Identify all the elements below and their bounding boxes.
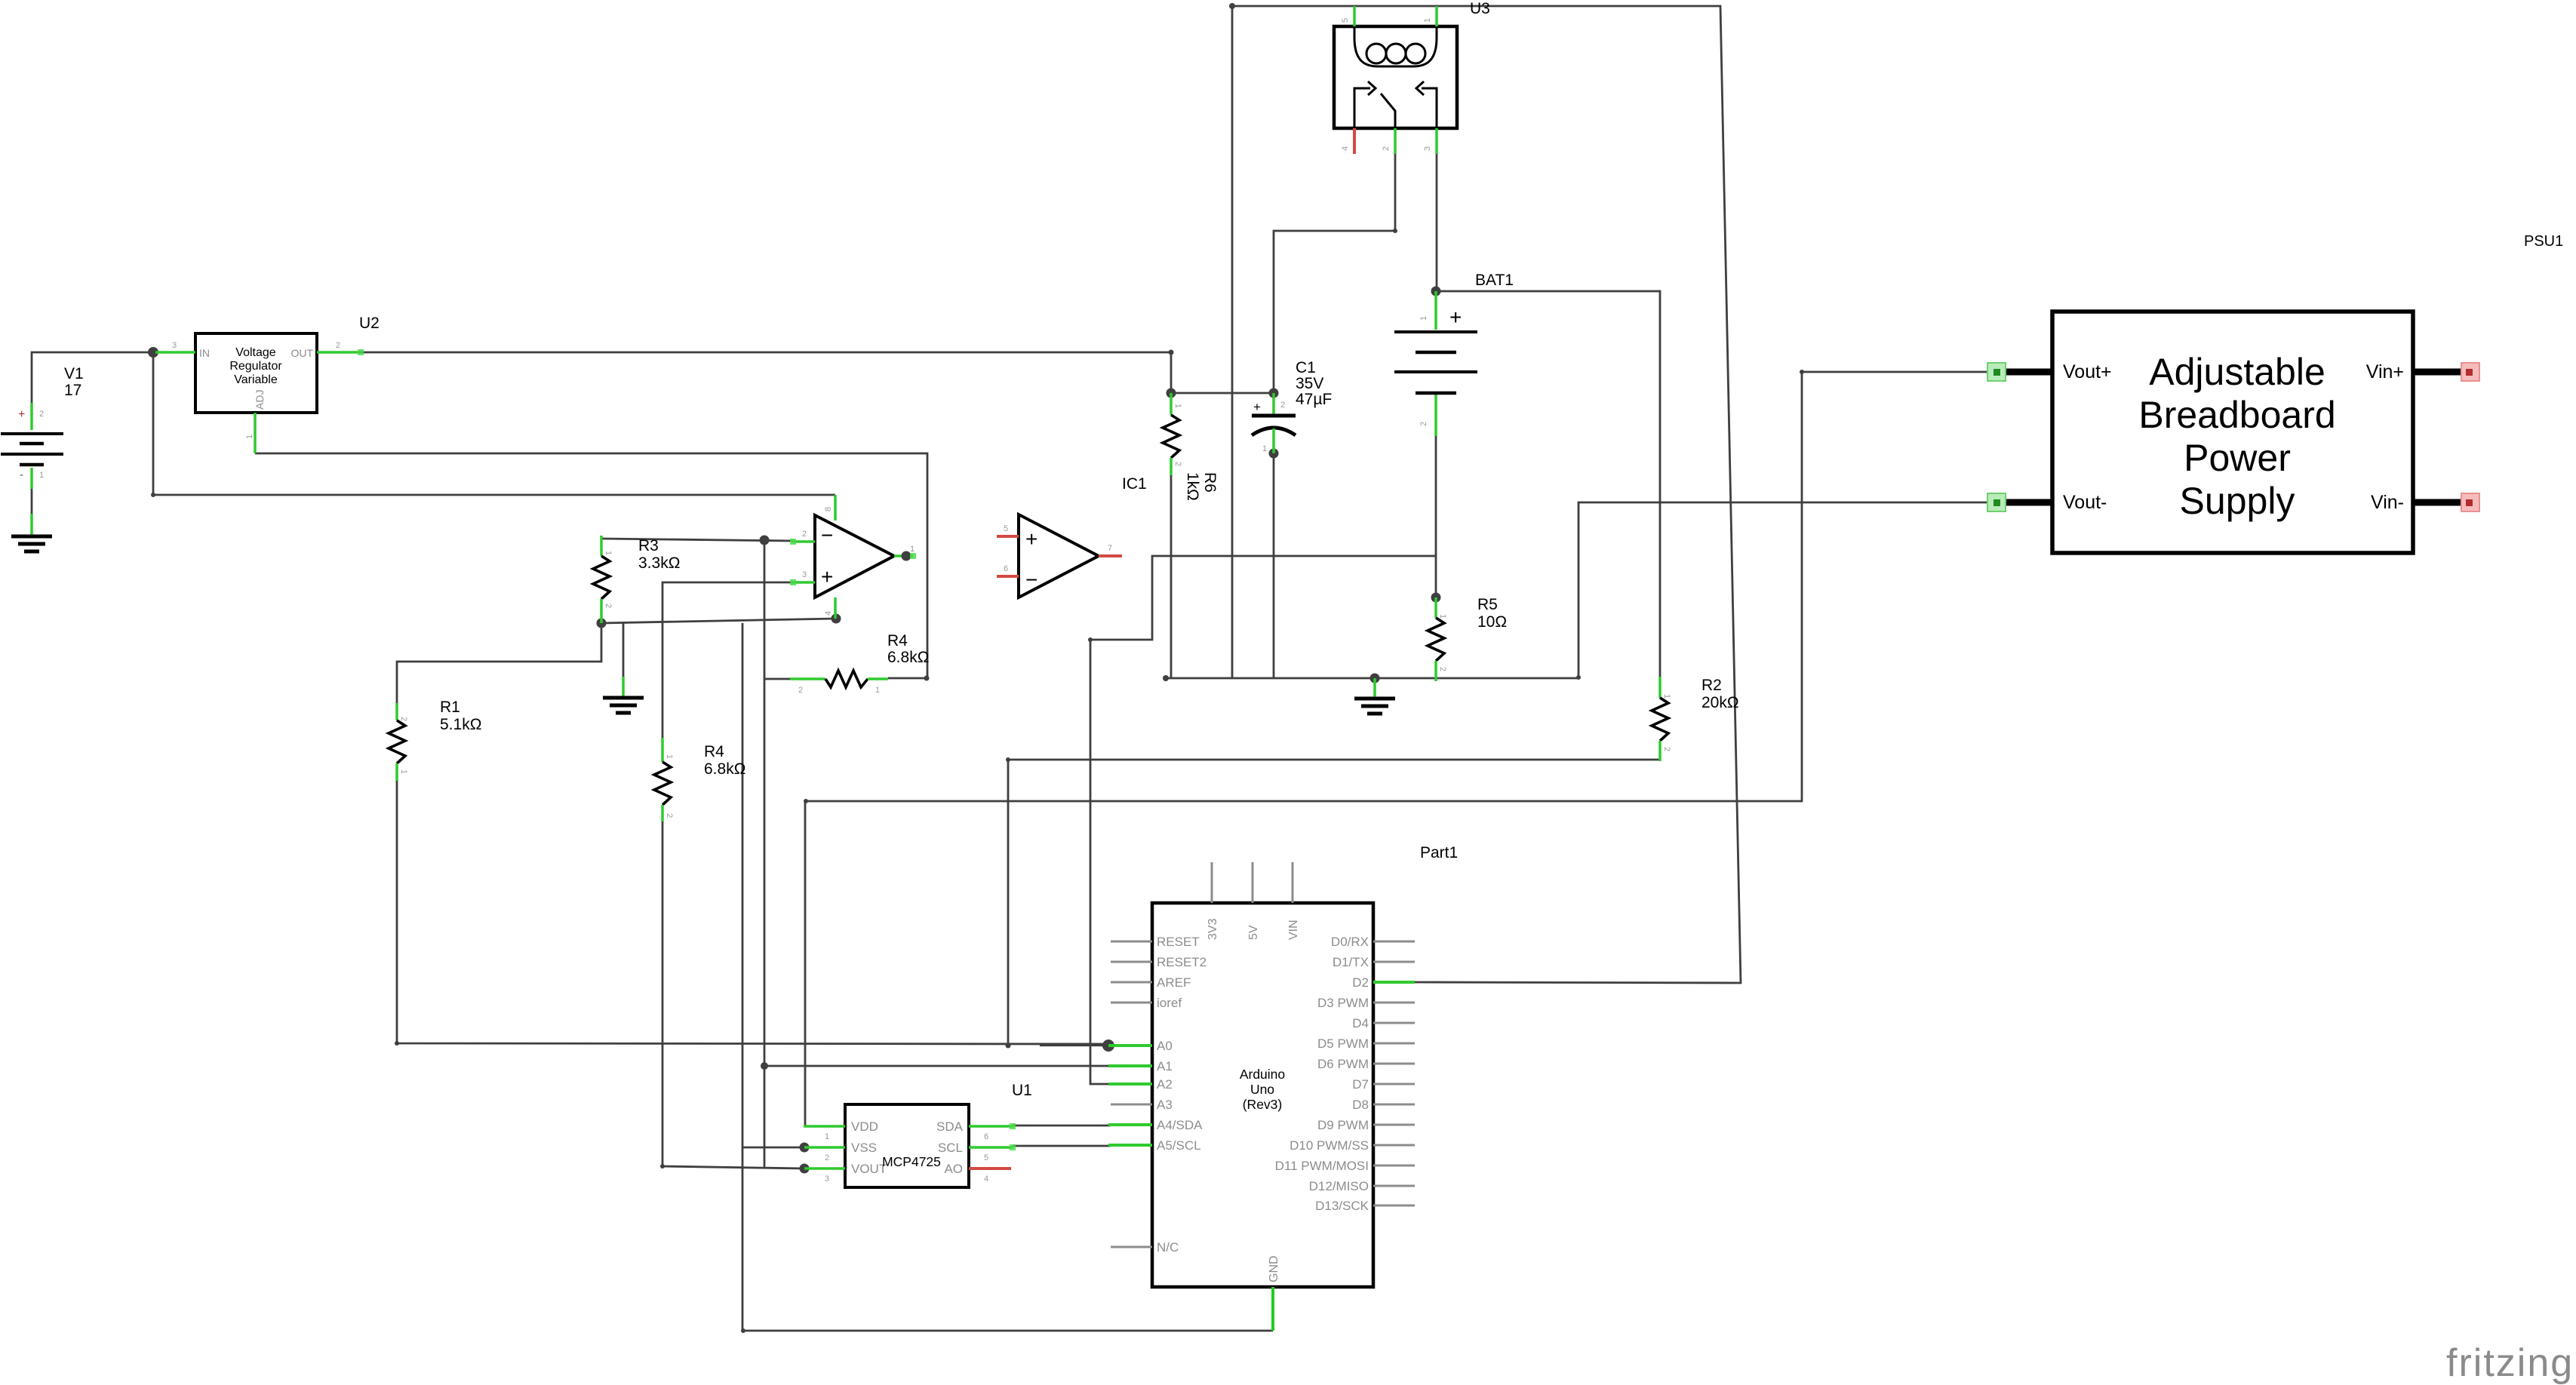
wire: A0 riser to R2 bottom [1008,760,1660,1046]
PSU Vin+ pin square (unconnected) [2461,363,2479,381]
svg-text:2: 2 [825,1153,829,1162]
svg-text:20kΩ: 20kΩ [1701,694,1739,711]
svg-text:Breadboard: Breadboard [2138,394,2335,436]
Arduino GND pin [1271,1287,1274,1331]
svg-text:V1: V1 [64,365,84,382]
svg-text:1: 1 [1423,18,1432,23]
svg-text:1: 1 [1438,614,1447,619]
svg-text:Vin-: Vin- [2371,492,2404,513]
node: C1 negative junction [1269,449,1279,459]
svg-text:2: 2 [1438,667,1447,671]
wire: R6 bottom to bus [1170,475,1173,679]
svg-text:SDA: SDA [936,1119,964,1134]
node: R5 top junction [1431,593,1441,603]
relay U3 [1334,0,1490,154]
wire: R3 bottom to R1 top [397,623,601,703]
svg-text:3: 3 [172,341,177,350]
svg-text:17: 17 [64,382,81,399]
svg-text:4: 4 [984,1175,988,1184]
svg-text:Vout+: Vout+ [2063,361,2112,382]
svg-text:2: 2 [798,686,803,695]
wire: BAT1 - to R5 [1435,436,1437,597]
svg-text:Supply: Supply [2180,480,2295,522]
svg-text:VIN: VIN [1287,920,1300,940]
node: V1+/IN junction [148,347,158,358]
PSU Vout- pin square [1987,493,2006,511]
ground (left rail) [622,677,625,698]
svg-text:Vin+: Vin+ [2366,361,2404,382]
svg-text:1: 1 [875,686,880,695]
svg-text:SCL: SCL [938,1141,963,1155]
voltage regulator U2 [155,315,380,453]
wire: V1 negative to ground [31,489,33,514]
svg-text:1: 1 [604,551,613,555]
svg-text:R3: R3 [638,537,659,554]
svg-text:-: - [20,468,23,481]
node: VOUT junction [800,1164,810,1174]
svg-text:3: 3 [1423,146,1432,151]
wire: MCP VOUT to vertical R4 bottom [662,821,804,1168]
svg-text:2: 2 [399,717,408,721]
svg-text:D6 PWM: D6 PWM [1317,1057,1369,1071]
svg-text:RESET: RESET [1157,935,1200,949]
svg-text:+: + [1449,306,1462,329]
svg-text:1: 1 [910,545,915,554]
svg-text:−: − [1025,568,1037,591]
svg-text:R1: R1 [440,699,460,716]
op-amp (first half, with feedback) [793,495,915,619]
svg-text:3: 3 [825,1175,829,1184]
svg-text:1: 1 [39,471,44,480]
svg-text:4: 4 [1341,146,1350,151]
resistor R3 3.3k [593,536,680,623]
Arduino center label [1240,1067,1285,1112]
svg-text:3: 3 [802,570,807,579]
svg-text:R4: R4 [887,632,908,650]
svg-text:2: 2 [604,603,613,608]
svg-text:2: 2 [1280,401,1285,410]
node: C1 positive junction [1269,388,1279,398]
svg-text:R2: R2 [1701,677,1722,694]
svg-text:Variable: Variable [234,373,278,386]
resistor R4 6.8k horizontal [790,632,929,695]
wire: U2 ADJ rail to op-amp output riser and R4 right [255,453,927,678]
svg-text:1: 1 [245,435,254,439]
svg-text:R5: R5 [1477,596,1498,613]
PSU Vout+ pin square [1987,363,2006,381]
node: inverting input junction [760,536,770,545]
battery V1 [1,365,84,536]
wire: R1 bottom to Arduino A0 [397,781,1108,1044]
svg-text:5.1kΩ: 5.1kΩ [440,716,481,733]
svg-text:R4: R4 [704,743,724,760]
svg-text:MCP4725: MCP4725 [882,1154,941,1169]
wire: BAT1 + to R2 top [1436,291,1660,677]
svg-text:+: + [1253,400,1261,414]
svg-text:+: + [821,565,833,588]
op-amp IC1 (unused half) [997,475,1147,597]
svg-text:IC1: IC1 [1122,475,1147,493]
svg-text:D13/SCK: D13/SCK [1315,1199,1369,1213]
svg-text:Part1: Part1 [1420,844,1458,861]
svg-text:Vout-: Vout- [2063,492,2107,513]
svg-text:U2: U2 [359,315,380,332]
svg-text:U3: U3 [1470,0,1490,17]
wire: Arduino A2 to BAT1-/R5 node [1090,556,1436,1084]
svg-text:1: 1 [1173,404,1182,408]
svg-text:3.3kΩ: 3.3kΩ [638,554,680,572]
resistor R4 6.8k vertical [654,738,745,821]
svg-text:6.8kΩ: 6.8kΩ [704,760,745,778]
svg-text:D9 PWM: D9 PWM [1317,1118,1369,1132]
MCP4725 U1 [804,1082,1032,1187]
resistor R6 1k [1163,393,1219,501]
svg-text:fritzing: fritzing [2446,1341,2574,1385]
PSU1 Adjustable Breadboard Power Supply [2001,312,2464,553]
svg-text:D12/MISO: D12/MISO [1309,1179,1369,1193]
svg-text:1: 1 [399,769,408,774]
node: wire end markers (green connection squares) [358,349,364,355]
svg-text:5: 5 [984,1153,988,1162]
svg-text:D5 PWM: D5 PWM [1317,1036,1369,1051]
svg-text:8: 8 [824,507,833,511]
svg-text:2: 2 [802,530,807,539]
svg-text:D0/RX: D0/RX [1331,935,1369,949]
svg-text:D8: D8 [1352,1098,1369,1112]
wire: C1 negative to bus [1273,453,1275,679]
svg-text:5: 5 [1341,18,1350,23]
svg-text:D7: D7 [1352,1077,1369,1092]
wire: R6 node to C1 node [1171,392,1274,395]
svg-text:VDD: VDD [851,1119,878,1134]
node: A0 junction [1102,1040,1114,1052]
svg-text:+: + [1025,527,1037,551]
node: VSS junction [800,1143,810,1153]
wire: PSU Vout+ to MCP VDD [805,372,1997,1126]
svg-text:N/C: N/C [1157,1240,1179,1254]
PSU Vin- pin square (unconnected) [2461,493,2479,511]
relay contacts and switch arm [1354,88,1370,128]
node: relay rail left end [1229,3,1235,9]
svg-text:C1: C1 [1296,359,1316,376]
wire: MCP SDA to Arduino A4 [1013,1125,1111,1127]
svg-text:D3 PWM: D3 PWM [1317,996,1369,1010]
svg-text:+: + [18,408,25,421]
svg-text:(Rev3): (Rev3) [1243,1097,1283,1112]
node: op-amp pin4 junction [832,614,841,624]
svg-text:5V: 5V [1247,925,1260,940]
svg-text:47µF: 47µF [1296,391,1332,408]
svg-text:10Ω: 10Ω [1477,613,1507,631]
wire: VSS to riser [742,1147,804,1149]
resistor R5 10 ohm [1428,596,1507,681]
ground (main bus) [1373,678,1376,699]
Arduino left pins [1108,935,1207,1254]
svg-text:1: 1 [1262,444,1267,453]
svg-text:Arduino: Arduino [1240,1067,1285,1082]
wire: non-inverting input to vertical R4 riser [662,582,793,738]
svg-text:6: 6 [1004,564,1008,573]
node: op-amp output junction [902,551,911,561]
svg-text:2: 2 [1662,747,1671,751]
svg-text:1kΩ: 1kΩ [1184,472,1201,501]
svg-text:2: 2 [39,410,44,419]
wire: relay pin 2 to C1 node [1274,154,1395,393]
node: R3 bottom junction [597,619,607,628]
svg-text:OUT: OUT [290,347,313,359]
svg-text:4: 4 [824,611,833,616]
svg-text:A1: A1 [1157,1059,1173,1073]
wire: U2 OUT to R6 top node [358,352,1171,393]
wire: A1 wire [764,1065,1111,1067]
svg-text:RESET2: RESET2 [1157,955,1207,969]
svg-text:Adjustable: Adjustable [2149,351,2325,393]
Arduino Uno Part1 [1152,862,1373,1287]
svg-text:7: 7 [1108,544,1112,553]
svg-text:A2: A2 [1157,1077,1173,1092]
node: A1 branch junction [761,1062,768,1070]
svg-text:D10 PWM/SS: D10 PWM/SS [1290,1138,1369,1153]
svg-text:VSS: VSS [851,1141,877,1155]
svg-text:BAT1: BAT1 [1475,272,1514,289]
ground (V1) [11,536,52,551]
svg-text:2: 2 [665,813,674,818]
svg-text:3V3: 3V3 [1207,918,1219,940]
wire: V+ rail from IN node to op-amp pin 8 [153,352,835,495]
battery BAT1 [1394,272,1514,436]
svg-text:D4: D4 [1352,1016,1369,1030]
svg-text:Regulator: Regulator [229,360,282,373]
svg-text:2: 2 [1382,146,1391,151]
svg-text:6.8kΩ: 6.8kΩ [887,649,929,666]
svg-text:1: 1 [665,754,674,759]
wire: inverting node riser down to A1/VOUT net [764,540,766,1168]
wire: relay pin 3 to BAT1 [1436,154,1438,291]
wire: ground branch [622,623,625,677]
wire: battery V1 + to U2 IN node [32,352,153,403]
svg-text:Power: Power [2184,437,2291,479]
svg-text:A0: A0 [1157,1039,1173,1053]
svg-text:GND: GND [1268,1255,1280,1282]
svg-text:1: 1 [1419,316,1428,321]
svg-text:ioref: ioref [1157,996,1182,1010]
svg-text:ADJ: ADJ [254,390,266,410]
wire: rail to op-amp pin 4 [601,619,836,623]
svg-text:Uno: Uno [1250,1082,1274,1097]
wire: ground bus to PSU Vout- [1166,502,1997,678]
svg-text:2: 2 [1419,422,1428,426]
svg-text:A5/SCL: A5/SCL [1157,1138,1201,1153]
wire: VSS riser and Arduino GND return [742,623,1273,1331]
node: bus ground junction [1370,674,1380,683]
svg-text:AREF: AREF [1157,975,1191,990]
resistor R1 5.1k [389,699,481,781]
relay coil [1354,26,1437,66]
svg-text:AO: AO [944,1162,963,1176]
svg-text:Voltage: Voltage [235,346,275,359]
svg-text:5: 5 [1004,524,1008,533]
wire: relay rail and D2 riser [1232,6,1741,983]
svg-text:1: 1 [1662,694,1671,699]
wire: R3 top to op-amp inverting input [601,539,793,541]
resistor R2 20k [1652,677,1739,761]
wire: A0 overlap segment [1040,1043,1108,1046]
wire: R4 horizontal left lead to riser [764,678,790,680]
node: BAT1 + junction [1431,287,1441,296]
svg-text:D1/TX: D1/TX [1333,955,1369,969]
svg-text:D11 PWM/MOSI: D11 PWM/MOSI [1275,1159,1369,1173]
svg-text:D2: D2 [1352,975,1369,990]
svg-text:−: − [821,524,833,547]
svg-text:2: 2 [1173,462,1182,466]
svg-text:U1: U1 [1012,1082,1032,1099]
Arduino right pins [1275,935,1415,1213]
svg-text:2: 2 [336,341,340,350]
svg-text:6: 6 [984,1132,988,1141]
capacitor C1 [1252,359,1332,453]
wire: MCP SCL to Arduino A5 [1013,1145,1111,1147]
svg-text:PSU1: PSU1 [2524,233,2563,250]
svg-text:35V: 35V [1296,375,1323,392]
node: R6 top junction [1167,388,1176,398]
svg-text:IN: IN [199,347,210,359]
svg-text:1: 1 [825,1132,829,1141]
svg-text:R6: R6 [1201,472,1219,493]
svg-text:A3: A3 [1157,1098,1173,1112]
svg-text:A4/SDA: A4/SDA [1157,1118,1203,1132]
